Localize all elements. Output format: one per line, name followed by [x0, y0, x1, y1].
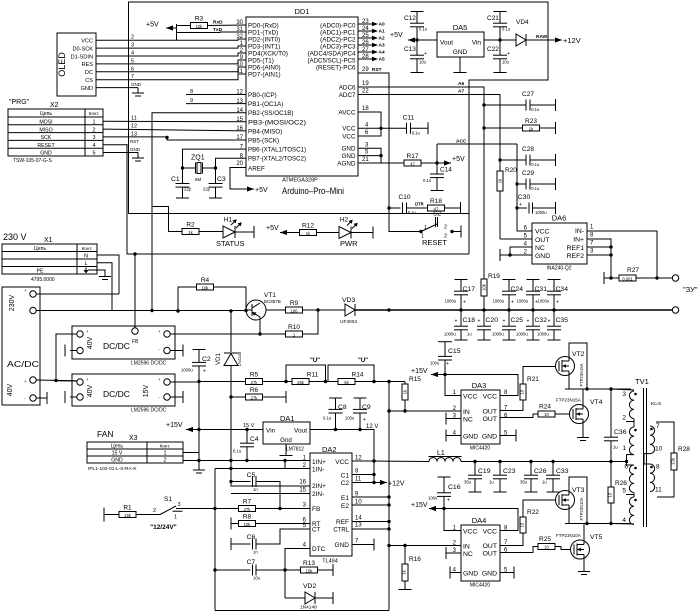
svg-text:2IN+: 2IN+ [312, 483, 326, 490]
svg-text:GND: GND [342, 153, 356, 160]
svg-text:10k: 10k [244, 522, 252, 527]
svg-text:AC/DC: AC/DC [7, 359, 39, 369]
IC DA2 TL494 [310, 445, 352, 565]
transistor VT3 [556, 491, 575, 510]
TV1 pin numbers and phase dots [622, 391, 662, 524]
junction VD1/1IN+ [229, 459, 232, 462]
ground symbol X1 PE [99, 276, 111, 278]
svg-text:C17: C17 [463, 286, 476, 293]
svg-text:100: 100 [291, 308, 299, 313]
wire DA4 NC stub [446, 552, 461, 554]
svg-text:(ADC3)-PC3: (ADC3)-PC3 [320, 44, 356, 51]
svg-text:1000u: 1000u [517, 299, 529, 304]
junction 40V split [54, 379, 57, 382]
wire -40V [36, 397, 47, 399]
junction 152 wire [150, 309, 153, 312]
terminal bar -40V [46, 392, 48, 404]
svg-text:A7: A7 [458, 89, 464, 95]
svg-text:230V: 230V [9, 295, 16, 312]
svg-text:+: + [556, 300, 559, 306]
svg-text:22p: 22p [184, 187, 192, 192]
wire ADC6 A6 [358, 87, 484, 105]
svg-text:C18: C18 [463, 317, 476, 324]
svg-text:14: 14 [355, 516, 362, 522]
wire VT1 emitter [259, 317, 261, 334]
svg-text:2: 2 [153, 508, 156, 514]
svg-text:C24: C24 [511, 286, 524, 293]
wire DC/DC2 in- bar [70, 396, 77, 398]
svg-text:+12V: +12V [563, 36, 581, 45]
junction REF2 [609, 253, 612, 256]
svg-text:RESET: RESET [422, 238, 447, 247]
terminal bar R18 [460, 202, 462, 214]
terminal bar C12 [411, 11, 424, 13]
svg-text:1u: 1u [613, 445, 618, 450]
svg-text:0.1u: 0.1u [502, 27, 511, 32]
svg-text:C2: C2 [341, 480, 350, 487]
svg-text:1000u: 1000u [537, 332, 549, 337]
DD1 left pin labels PB0..PB7 AREF [236, 90, 306, 173]
wire ADC7 A7 [358, 95, 500, 161]
svg-text:0.1u: 0.1u [419, 27, 428, 32]
wire E1 E2 rows [352, 496, 389, 498]
terminal bar C14 [431, 190, 444, 192]
svg-text:1000u: 1000u [181, 368, 193, 373]
wire TV1 pin1-6 jog [627, 455, 635, 465]
junction rail x461 [459, 308, 462, 311]
svg-text:R4: R4 [201, 277, 210, 284]
terminal bar VD2 [332, 592, 334, 604]
capacitor C7 [215, 559, 300, 581]
svg-text:0.1u: 0.1u [412, 130, 421, 135]
svg-text:(RESET)-PC6: (RESET)-PC6 [316, 65, 356, 72]
junction rail x554 [552, 308, 555, 311]
svg-text:PB3-(MOSI/OC2): PB3-(MOSI/OC2) [248, 119, 306, 126]
svg-text:+: + [86, 377, 89, 382]
svg-text:GND: GND [342, 146, 356, 153]
wire DA1 Gnd stem [285, 444, 287, 455]
resistor R24 [500, 404, 570, 418]
svg-text:OUT: OUT [483, 551, 497, 558]
capacitor C27 [522, 91, 540, 112]
svg-text:C3: C3 [217, 176, 226, 183]
terminal bar C13 [411, 72, 424, 74]
svg-text:1N4148: 1N4148 [237, 351, 242, 366]
svg-text:DC: DC [85, 70, 93, 76]
svg-text:Arduino–Pro–Mini: Arduino–Pro–Mini [282, 186, 344, 196]
svg-text:2: 2 [444, 225, 447, 231]
svg-text:10: 10 [520, 389, 525, 394]
svg-text:10: 10 [544, 412, 549, 417]
wire 230V N run [36, 293, 119, 295]
resistor R4 [197, 277, 214, 290]
svg-text:1000u: 1000u [516, 332, 528, 337]
svg-text:6: 6 [131, 66, 134, 72]
wire DA3 GND pin5 [500, 435, 516, 437]
svg-text:GND: GND [453, 49, 468, 56]
svg-text:RES: RES [81, 62, 93, 68]
svg-text:R18: R18 [430, 198, 442, 205]
svg-text:GND: GND [535, 253, 550, 260]
svg-text:C34: C34 [556, 286, 569, 293]
IC DA4 MIC4420 [461, 516, 500, 589]
wire R9 right [303, 309, 319, 311]
wire DTC row [285, 549, 310, 599]
svg-text:·: · [86, 395, 88, 401]
svg-text:A6: A6 [458, 81, 464, 87]
wire bottom rail [215, 610, 389, 612]
svg-text:R19: R19 [488, 273, 500, 280]
capacitor C2 [181, 350, 211, 382]
junction R16 top [403, 544, 406, 547]
svg-text:C31: C31 [535, 286, 548, 293]
capacitor C35 [537, 310, 568, 340]
wire DA4 VCC pin8 [444, 509, 518, 531]
svg-text:C29: C29 [522, 170, 534, 177]
wire X2 GND [103, 152, 138, 154]
resistor R20 [497, 160, 517, 239]
svg-text:C36: C36 [614, 429, 627, 436]
svg-text:RST: RST [130, 139, 139, 144]
svg-text:PB6-(XTAL1/TOSC1): PB6-(XTAL1/TOSC1) [248, 147, 306, 154]
diode VD1 [216, 311, 242, 477]
svg-text:VCC: VCC [463, 529, 477, 536]
svg-text:15: 15 [299, 488, 306, 494]
terminal DC/DC1 FB [132, 328, 138, 334]
svg-text:27k: 27k [251, 395, 259, 400]
terminal bar C28 [555, 154, 557, 166]
svg-text:10: 10 [544, 545, 549, 550]
capacitor C26 [520, 462, 547, 493]
svg-text:(ADC1)-PC1: (ADC1)-PC1 [320, 30, 356, 37]
junction +15V row [197, 428, 200, 431]
terminal AC/DC 230V N [30, 291, 36, 297]
wire 1IN- to x215 [215, 468, 285, 470]
svg-text:C28: C28 [522, 146, 534, 153]
svg-text:C33: C33 [556, 468, 569, 475]
svg-text:3: 3 [178, 502, 181, 508]
svg-text:NC: NC [463, 417, 473, 424]
svg-text:23: 23 [362, 19, 369, 25]
svg-text:·: · [86, 347, 88, 353]
svg-text:ADC7: ADC7 [339, 92, 356, 99]
svg-text:1IN-: 1IN- [312, 467, 324, 474]
wire VT4 source to ground [582, 424, 584, 438]
wire DA6 REF1 [587, 246, 611, 248]
svg-text:11: 11 [131, 116, 137, 122]
svg-text:OUT: OUT [483, 543, 497, 550]
svg-text:20: 20 [236, 161, 243, 167]
svg-text:"U": "U" [358, 358, 368, 364]
svg-text:1N4148: 1N4148 [300, 605, 317, 611]
terminal DC/DC2 out- [164, 394, 170, 400]
svg-text:FTP23N15A: FTP23N15A [556, 398, 581, 403]
capacitor C23 [489, 462, 516, 493]
diode VD2 [285, 583, 333, 611]
svg-text:10u: 10u [502, 60, 510, 65]
terminal bar DA4 NC [445, 547, 447, 559]
wire FB net [134, 254, 136, 328]
svg-text:R8: R8 [243, 514, 252, 521]
svg-text:1: 1 [424, 225, 427, 231]
junction C36/12V row [609, 460, 612, 463]
svg-text:10u: 10u [253, 576, 261, 581]
svg-text:R10: R10 [288, 324, 300, 331]
diode VD4 [516, 19, 548, 46]
svg-text:REF: REF [336, 519, 349, 526]
svg-text:C15: C15 [448, 348, 461, 355]
svg-text:CTRL: CTRL [333, 528, 349, 534]
svg-text:C12: C12 [404, 15, 416, 22]
svg-text:"PRG": "PRG" [9, 99, 30, 106]
wires OLED to DD1 PD2..PD7 [96, 35, 246, 80]
wire VT2 drain loop [569, 343, 587, 389]
wire R1 left [104, 514, 119, 516]
svg-text:IN-: IN- [575, 228, 584, 235]
svg-text:3: 3 [622, 391, 626, 398]
svg-text:(ADC4/SDA)PC4: (ADC4/SDA)PC4 [308, 51, 356, 58]
svg-text:VCC: VCC [463, 394, 477, 401]
junction R13 left [283, 568, 286, 571]
resistor R13 [301, 560, 318, 573]
svg-text:R15: R15 [409, 376, 421, 383]
svg-text:INA240-Q2: INA240-Q2 [546, 266, 571, 272]
wire DA6 IN+ [587, 239, 611, 278]
svg-text:Цепь: Цепь [34, 246, 47, 252]
svg-text:DA3: DA3 [472, 381, 487, 390]
capacitor C1 [171, 176, 192, 198]
capacitor C30 [517, 194, 555, 215]
wire 230V L run [36, 310, 246, 312]
wire X1 N [97, 255, 119, 294]
terminal bar R16 [399, 589, 412, 591]
svg-text:PD1-(TxD): PD1-(TxD) [248, 30, 278, 37]
wire TxD [177, 31, 247, 34]
wire phase node y389 [565, 388, 631, 390]
svg-text:ZQ1: ZQ1 [191, 155, 205, 162]
resistor R18 [428, 198, 445, 211]
svg-text:1: 1 [163, 451, 166, 457]
svg-text:0.1u: 0.1u [408, 210, 417, 215]
wire 40V up to DC/DC1 [56, 334, 77, 381]
ground symbol X2 [132, 157, 144, 159]
svg-text:A2: A2 [379, 36, 385, 42]
resistor R19 [481, 105, 500, 310]
svg-text:ACC: ACC [456, 139, 467, 145]
wire +5V to Vout [408, 39, 437, 41]
wire R7 to FB pin [256, 508, 311, 510]
capacitor C15 [430, 342, 461, 375]
svg-text:27k: 27k [244, 507, 252, 512]
IC DA3 MIC4420 [461, 381, 500, 452]
junction crystal right [214, 166, 217, 169]
svg-text:PD4(XCK/T0): PD4(XCK/T0) [248, 51, 288, 58]
terminal bar R8 [230, 518, 232, 530]
wire R5 left [199, 381, 246, 383]
terminal bar DC/DC1 out- [182, 345, 184, 357]
wires A0..A5 with arrows [358, 19, 385, 63]
svg-text:"12/24V": "12/24V" [150, 524, 177, 531]
terminal DC/DC1 out- [164, 347, 170, 353]
terminal AC/DC +40V [30, 377, 36, 383]
svg-text:STATUS: STATUS [216, 239, 244, 248]
IC DA1 LM7812 [263, 414, 310, 453]
wire R14 to R15 [355, 381, 405, 383]
capacitor C10 [399, 194, 417, 215]
svg-text:10: 10 [608, 492, 613, 497]
junction R11 right [324, 380, 327, 383]
svg-text:CT: CT [312, 527, 320, 534]
capacitor C10 [399, 194, 428, 215]
svg-text:+5V: +5V [390, 32, 403, 39]
svg-text:Vout: Vout [294, 428, 307, 435]
svg-text:47: 47 [410, 161, 415, 166]
resistor R22 [500, 500, 556, 546]
svg-text:X3: X3 [129, 435, 138, 442]
wire PB7 to crystal [216, 158, 247, 183]
wire X2 SCK to PB5 [103, 137, 246, 140]
svg-text:GND: GND [463, 434, 478, 441]
junction A7/C28 [498, 158, 501, 161]
wire DA5 GND stem [459, 57, 461, 72]
wire DA2 C1 C2 rows [352, 474, 374, 476]
svg-text:GND: GND [111, 458, 123, 464]
wire DA1 Vout 12V row [310, 430, 374, 462]
svg-text:PD3-(INT1): PD3-(INT1) [248, 44, 280, 51]
resistor R26 [608, 462, 628, 524]
junction R27/IN+ [609, 276, 612, 279]
svg-text:R23: R23 [525, 118, 537, 125]
svg-text:+: + [503, 319, 506, 325]
svg-text:LM7812: LM7812 [286, 447, 304, 453]
wire 2IN- row [231, 493, 310, 495]
svg-text:230 V: 230 V [3, 232, 27, 242]
terminal bar DA4 GND4 [449, 567, 451, 579]
svg-text:FB: FB [132, 339, 139, 345]
svg-text:16: 16 [299, 480, 306, 486]
wire ACC net [436, 144, 438, 163]
svg-text:4: 4 [92, 143, 95, 149]
wire VT5 source to ground [583, 559, 585, 571]
svg-text:C10: C10 [399, 194, 411, 201]
svg-text:DTR: DTR [415, 202, 424, 207]
transformer TV1 [629, 377, 661, 527]
svg-text:R27: R27 [627, 267, 639, 274]
resistor R2 [182, 222, 199, 235]
svg-text:H2: H2 [340, 217, 349, 224]
svg-text:R14: R14 [352, 372, 364, 379]
terminal DC/DC2 in- [77, 394, 83, 400]
terminal bar C22 [494, 72, 507, 74]
svg-text:FTP23N15A: FTP23N15A [579, 363, 584, 386]
svg-text:2IN-: 2IN- [312, 491, 324, 498]
svg-text:GND: GND [482, 571, 497, 578]
resistor R7 [239, 499, 256, 512]
junction VT1 emitter [258, 332, 261, 335]
svg-text:·: · [24, 396, 26, 402]
wire VT5 drain [583, 524, 585, 541]
svg-text:ADC6: ADC6 [339, 84, 356, 91]
wire TV1 pin5 stub [633, 493, 635, 497]
svg-text:IN+: IN+ [573, 237, 584, 244]
capacitor C9 [345, 398, 371, 430]
svg-text:L1: L1 [437, 450, 445, 457]
svg-text:C11: C11 [403, 114, 415, 121]
svg-text:H1: H1 [224, 217, 233, 224]
junction C23 [498, 460, 501, 463]
ground symbol X3 [198, 461, 200, 470]
capacitor C36 [604, 389, 627, 462]
svg-text:1000u: 1000u [445, 299, 457, 304]
connector X3 table [87, 435, 183, 472]
wire +15V row to DA1 Vin [186, 429, 263, 431]
capacitor C29 [522, 170, 540, 191]
svg-text:DC/DC: DC/DC [103, 389, 130, 399]
svg-text:Gnd: Gnd [280, 437, 292, 444]
junction A6/C27 [482, 103, 485, 106]
terminal bar R1 left [103, 508, 105, 522]
svg-text:NC: NC [463, 551, 473, 558]
svg-text:10k: 10k [482, 283, 487, 291]
wire DA4 GND pin5 [500, 572, 514, 574]
terminal DC/DC2 out+ [164, 379, 170, 385]
svg-text:R9: R9 [290, 300, 299, 307]
svg-text:Цепь: Цепь [40, 111, 53, 117]
junction VT4 drain [585, 387, 588, 390]
svg-text:Vin: Vin [266, 428, 276, 435]
svg-text:10: 10 [236, 62, 243, 68]
DC/DC converter 1 LM2596 [72, 326, 175, 367]
svg-text:0.1u: 0.1u [531, 107, 540, 112]
junction C1 C2 [372, 473, 375, 476]
capacitor C29 [517, 170, 555, 191]
junction U/x389 [387, 380, 390, 383]
junction C12/C13 [415, 38, 418, 41]
junction C9 [358, 428, 361, 431]
svg-text:R5: R5 [250, 372, 259, 379]
svg-text:DC/DC: DC/DC [103, 341, 130, 351]
svg-text:A5: A5 [379, 57, 385, 63]
capacitor C28 [522, 146, 540, 167]
terminal ЗУ plus [672, 275, 678, 281]
terminal bar C3 [209, 197, 222, 199]
junction REF1 [609, 245, 612, 248]
resistor R27 [619, 267, 672, 281]
svg-text:+: + [158, 329, 161, 334]
IC DD1 ATMEGA328P box [246, 7, 358, 184]
capacitor C5 [231, 472, 280, 509]
svg-text:C23: C23 [503, 468, 516, 475]
svg-text:GND: GND [130, 147, 141, 152]
svg-text:C4: C4 [250, 436, 259, 443]
svg-text:R11: R11 [307, 372, 319, 379]
svg-text:L: L [84, 261, 87, 267]
terminal bar C11 [427, 122, 429, 134]
wire FB row from S1 [178, 508, 239, 510]
resistor R3 [191, 16, 208, 29]
capacitor C34 [538, 280, 569, 311]
switch S2 RESET [389, 208, 461, 247]
svg-text:R25: R25 [539, 536, 551, 543]
wire RxD [177, 25, 191, 27]
capacitor C24 [493, 280, 524, 311]
svg-text:10: 10 [655, 446, 663, 453]
svg-text:VCC: VCC [535, 229, 549, 236]
resistor R1 [119, 505, 136, 518]
svg-text:C19: C19 [478, 468, 491, 475]
DC/DC converter 2 LM2596 [72, 374, 175, 414]
svg-text:11: 11 [355, 477, 362, 483]
